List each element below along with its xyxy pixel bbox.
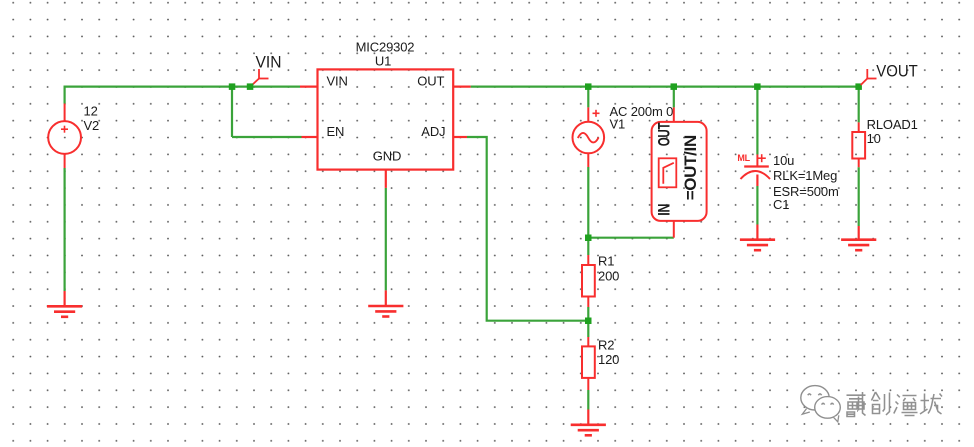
junction (V1 top)	[585, 83, 592, 90]
watermark text glyph 2 (chuang)	[871, 391, 889, 414]
resistor R1	[582, 255, 595, 307]
capacitor C1 (polarized)	[741, 155, 771, 240]
voltage source V2	[48, 104, 81, 169]
wire: C1 bottom vertical	[756, 186, 758, 225]
ground (U1 GND)	[368, 290, 403, 316]
node VOUT marker	[861, 69, 877, 85]
svg-text:VIN: VIN	[256, 53, 282, 71]
wire: C1 top vertical	[756, 87, 758, 155]
svg-text:RLK=1Meg: RLK=1Meg	[773, 168, 837, 183]
wire: V1 bottom vertical	[587, 167, 589, 238]
wire: EN branch horizontal	[232, 136, 302, 138]
svg-text:V2: V2	[84, 118, 100, 133]
pin ADJ stub	[453, 136, 467, 138]
wire: probe top vertical	[673, 87, 675, 108]
svg-text:VIN: VIN	[327, 74, 348, 89]
svg-text:120: 120	[598, 352, 619, 367]
wire: RLOAD1 top vertical	[858, 87, 860, 123]
svg-text:10u: 10u	[773, 153, 794, 168]
watermark text glyph 3 (xin)	[893, 394, 917, 415]
junction (V1 bottom / R1 top)	[585, 235, 592, 242]
svg-text:R1: R1	[598, 254, 614, 269]
svg-text:ML: ML	[737, 153, 750, 163]
junction (probe top)	[671, 83, 678, 90]
wire: R2 top	[587, 321, 589, 337]
wire: RLOAD1 bottom vertical	[858, 167, 860, 226]
svg-text:OUT: OUT	[417, 74, 444, 89]
wire: V1 top vertical	[587, 87, 589, 108]
svg-text:12: 12	[84, 104, 98, 119]
probe icon (response curve)	[659, 158, 677, 187]
IC U1 MIC29302 regulator box	[318, 69, 454, 169]
wire: ADJ branch	[467, 137, 588, 321]
resistor R2	[582, 337, 595, 390]
ground (V2)	[47, 291, 82, 317]
junction (VIN marker)	[247, 83, 254, 90]
svg-text:10: 10	[867, 131, 881, 146]
svg-text:V1: V1	[610, 117, 626, 132]
ground (C1)	[740, 240, 775, 251]
svg-text:C1: C1	[773, 197, 789, 212]
svg-text:EN: EN	[327, 124, 345, 139]
wire: V2 bottom vertical	[63, 168, 65, 291]
pin EN stub	[302, 136, 318, 138]
junction (VOUT / RLOAD1 top)	[855, 83, 862, 90]
resistor RLOAD1	[852, 122, 865, 167]
junction (EN tap)	[229, 83, 236, 90]
svg-text:MIC29302: MIC29302	[356, 39, 415, 54]
pin GND stub	[385, 170, 387, 188]
ground (RLOAD1)	[841, 226, 876, 250]
svg-text:ADJ: ADJ	[421, 124, 445, 139]
svg-text:U1: U1	[375, 54, 391, 69]
svg-text:=OUT/IN: =OUT/IN	[682, 135, 700, 200]
junction (C1 top)	[754, 83, 761, 90]
wire: EN branch vertical	[231, 87, 233, 137]
wire: probe bottom horizontal	[588, 237, 674, 239]
svg-text:R2: R2	[598, 338, 614, 353]
wire: top rail from OUT pin to VOUT	[471, 85, 859, 87]
wire: V2 top vertical	[63, 86, 65, 104]
wire: R2 bottom	[587, 390, 589, 410]
junction (ADJ / R1-R2 tap)	[585, 318, 592, 325]
svg-text:IN: IN	[655, 204, 674, 216]
AC source V1	[573, 107, 605, 167]
wire: main top rail from V2 to VIN pin	[65, 85, 300, 87]
watermark wechat logo	[801, 386, 841, 422]
wire: U1 GND vertical	[385, 188, 387, 291]
wire: R1 bottom to junction	[587, 307, 589, 321]
pin OUT stub	[453, 85, 470, 87]
watermark text glyph 1 (rong)	[846, 391, 866, 416]
ground (R2)	[571, 410, 606, 436]
C1 plus sign	[758, 154, 766, 162]
pin VIN stub	[300, 85, 318, 87]
probe block =OUT/IN	[652, 107, 707, 237]
watermark text glyph 4 (cheng)	[919, 393, 941, 414]
svg-text:GND: GND	[373, 149, 401, 164]
svg-text:200: 200	[598, 268, 619, 283]
svg-text:OUT: OUT	[655, 122, 674, 146]
node VIN marker	[252, 69, 269, 85]
svg-text:VOUT: VOUT	[876, 62, 918, 80]
wire: R1 top	[587, 238, 589, 255]
